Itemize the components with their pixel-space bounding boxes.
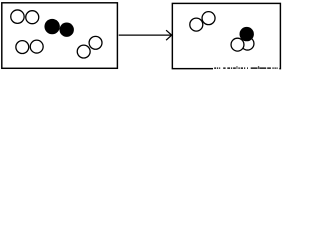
- right box: triatomic molecule - white atom lower-right: [241, 37, 254, 50]
- left box: black diatomic molecule, atom 2: [59, 23, 73, 37]
- right box: white diatomic molecule, upper atom: [202, 12, 215, 25]
- right box: triatomic molecule - white atom lower-left: [231, 38, 244, 51]
- arrow shaft: [119, 34, 172, 36]
- watermark marks (illegible tiny copyright text over the border): [214, 66, 277, 69]
- left box: white diatomic molecule bottom-right, upper atom: [89, 36, 102, 49]
- left box: white diatomic molecule bottom-left, atom 1: [16, 41, 29, 54]
- left box: white diatomic molecule bottom-left, atom 2: [30, 40, 43, 53]
- arrowhead: [166, 30, 172, 40]
- left box: white diatomic molecule bottom-right, lower atom: [77, 45, 90, 58]
- left box: white diatomic molecule top-left, atom 2: [26, 11, 39, 24]
- right box: white diatomic molecule, lower atom: [190, 18, 203, 31]
- watermark strip covering part of the bottom border: [213, 67, 279, 70]
- left box: white diatomic molecule top-left, atom 1: [11, 10, 24, 23]
- right box: triatomic molecule - black atom on top: [240, 27, 254, 41]
- left reactant box: [2, 3, 118, 69]
- left box: black diatomic molecule, atom 1: [44, 19, 59, 34]
- right product box: [172, 3, 280, 68]
